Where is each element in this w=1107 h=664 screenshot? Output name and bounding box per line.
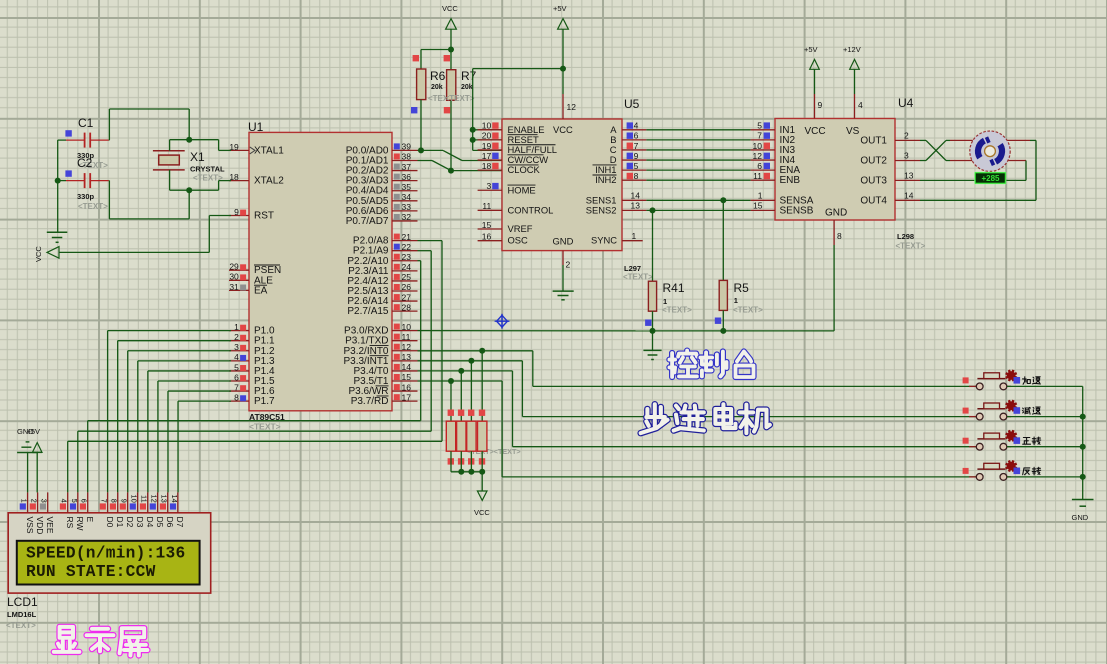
U1 pin 2 P1.1 [229,332,275,347]
svg-text:<TEXT>: <TEXT> [662,306,692,315]
junction SENS2/R41 node [650,207,656,213]
wire XTAL2 net [109,181,231,219]
svg-text:<TEXT>: <TEXT> [733,306,763,315]
stepper motor [970,131,1010,171]
resistor network element 2 [457,371,466,472]
svg-text:25: 25 [402,272,412,282]
svg-text:1: 1 [20,499,29,503]
U5 pin 11 CONTROL [478,201,554,215]
svg-text:SENS2: SENS2 [586,204,617,215]
svg-text:30: 30 [229,272,239,282]
svg-text:34: 34 [402,192,412,202]
svg-text:16: 16 [402,382,412,392]
LCD pin 10 D3 [130,492,145,527]
svg-text:P0.7/AD7: P0.7/AD7 [346,216,389,227]
U1 pin 12 P3.2/INT0 [343,342,417,357]
U4 pin 12 IN4 [751,151,796,166]
origin marker (blue compass) [495,314,510,329]
svg-text:CRYSTAL: CRYSTAL [190,165,225,174]
C1 label [78,116,94,130]
svg-text:RW: RW [75,517,85,531]
junction R7/P0.1 node [448,168,454,174]
LCD pin 7 D0 [100,492,115,527]
U4 pin 3 OUT2 [860,151,920,167]
R5 label [734,281,750,295]
U5 pin 6 B [610,131,646,145]
svg-text:OSC: OSC [508,235,529,246]
svg-text:24: 24 [402,262,412,272]
U4 pin 1 SENSA [751,191,814,207]
LCD pin 14 D7 [170,492,185,527]
svg-text:13: 13 [402,352,412,362]
svg-text:17: 17 [482,151,492,161]
U1 pin 1 P1.0 [229,322,275,337]
LCD pin 1 VSS [20,492,35,533]
svg-text:31: 31 [229,282,239,292]
svg-text:CONTROL: CONTROL [508,204,554,215]
svg-text:OUT4: OUT4 [860,195,887,206]
junction XTAL2 node [186,187,192,193]
U1 pin 4 P1.3 [229,352,275,367]
svg-text:SENSB: SENSB [780,205,814,216]
svg-text:C1: C1 [78,116,94,130]
svg-text:<TEXT>: <TEXT> [78,202,108,211]
svg-text:32: 32 [402,212,412,222]
svg-text:+5V: +5V [27,427,41,436]
LCD pin 8 D1 [110,492,125,527]
svg-text:6: 6 [757,161,762,171]
svg-text:4: 4 [234,352,239,362]
wire P1.2 to LCD D2 [128,351,231,493]
svg-text:LMD16L: LMD16L [7,610,37,619]
power VCC (resistor network, down) [474,491,490,517]
svg-text:2: 2 [566,260,571,270]
svg-text:D0: D0 [105,517,115,528]
U5 pin 14 SENS1 [586,191,647,206]
svg-text:4: 4 [634,121,639,131]
U5 pin 2 GND [553,236,574,292]
resistor R7 [444,55,456,171]
svg-text:2: 2 [234,332,239,342]
wire A to IN1 [646,129,750,131]
svg-text:36: 36 [402,172,412,182]
svg-text:OUT3: OUT3 [860,175,887,186]
svg-text:1: 1 [632,231,637,241]
U5 pin 10 ENABLE [478,121,545,135]
svg-text:VDD: VDD [35,517,45,535]
svg-text:P3.7/RD: P3.7/RD [351,396,389,407]
C1 value 330p [77,151,108,170]
wire INH1 to ENA [646,169,750,171]
junction P3.2/RN node [479,348,485,354]
U1 pin 39 P0.0/AD0 [346,142,418,157]
U5 pin 8 INH2 [593,171,647,185]
wire VCC to R6 R7 [421,50,451,70]
svg-text:330p: 330p [77,192,95,201]
svg-text:2: 2 [30,499,39,503]
U1 pin 36 P0.3/AD3 [346,172,418,187]
LCD1 value LMD16L [6,610,37,630]
U1 pin 34 P0.5/AD5 [346,192,418,207]
junction RESET node [470,137,476,143]
svg-text:<TEXT>: <TEXT> [896,242,926,251]
ground (crystal rail) [47,232,68,242]
svg-text:OUT2: OUT2 [860,156,887,167]
LCD1 label [7,595,38,609]
R41 value 1 [662,297,692,315]
svg-text:<TEXT>: <TEXT> [445,94,475,103]
svg-text:1: 1 [234,322,239,332]
X1 label [190,150,205,164]
U4 pin 4 VS [846,94,863,137]
svg-text:13: 13 [160,494,169,502]
U4 pin 14 OUT4 [860,190,920,206]
svg-text:SYNC: SYNC [591,235,617,246]
junction R5/GND node [720,328,726,334]
svg-text:26: 26 [402,282,412,292]
svg-text:X1: X1 [190,150,205,164]
svg-text:EA: EA [254,285,268,296]
svg-text:3: 3 [904,151,909,161]
U1 pin 38 P0.1/AD1 [346,152,418,167]
svg-text:12: 12 [402,342,412,352]
wire P2.0 to LCD RS [68,241,442,493]
svg-text:3: 3 [234,342,239,352]
wire button 2 to GND bus [1007,416,1083,418]
svg-text:6: 6 [634,131,639,141]
wire P1.0 to LCD D0 [108,331,231,493]
power +5V (U5) [553,4,568,69]
svg-text:E: E [85,517,95,523]
svg-text:13: 13 [631,201,641,211]
junction P3.4/RN node [458,368,464,374]
svg-text:4: 4 [60,499,69,503]
wire GND net (P3.0 row) [418,245,835,331]
svg-text:VCC: VCC [553,124,573,135]
svg-text:11: 11 [402,332,411,342]
U1 pin 9 RST [229,207,274,222]
svg-text:VCC: VCC [805,126,826,137]
U4 pin 11 ENB [751,171,801,186]
X1 value CRYSTAL [190,165,225,183]
power VCC (R6/R7) [442,4,458,50]
svg-text:D5: D5 [155,517,165,528]
svg-text:1: 1 [758,191,763,201]
svg-text:RS: RS [65,517,75,529]
wire XTAL1 net [109,109,231,150]
svg-text:11: 11 [482,201,491,211]
svg-text:VS: VS [846,126,860,137]
svg-text:CLOCK: CLOCK [508,164,541,175]
junction button 2 node [1080,414,1086,420]
wire D to IN4 [646,159,750,161]
U1 pin 35 P0.4/AD4 [346,182,418,197]
junction C2 left node [55,178,61,184]
U1 pin 25 P2.4/A12 [347,272,417,287]
svg-text:ENB: ENB [780,175,801,186]
U4 value L298 [896,232,926,251]
U1 pin 24 P2.3/A11 [348,262,417,277]
svg-text:+5V: +5V [553,4,567,13]
wire P2.2 to LCD E [88,261,421,493]
svg-text:14: 14 [904,190,914,200]
svg-text:12: 12 [567,102,577,112]
U5 pin 9 D [610,151,647,165]
svg-text:SPEED(n/min):136: SPEED(n/min):136 [26,545,185,563]
button label 正转 [1023,437,1041,445]
IC U5 L297 body [502,119,622,251]
wire R41 to ground [652,331,654,351]
svg-text:33: 33 [402,202,412,212]
wire B to IN2 [646,139,750,141]
ground (U5) [553,291,574,300]
svg-text:5: 5 [634,161,639,171]
R6 value 20k [428,84,458,103]
U1 pin 22 P2.1/A9 [353,242,418,257]
svg-text:+285: +285 [981,174,1000,183]
annotation 步进电机 [641,404,770,433]
wire +5V net [473,69,563,151]
U5 pin 17 CW/CCW [478,151,549,165]
U1 pin 6 P1.5 [229,372,275,387]
U1 pin 21 P2.0/A8 [353,232,418,247]
U5 pin 1 SYNC [591,231,643,246]
annotation 控制台 [669,351,753,377]
wire P3.4 to button 3 [418,371,977,447]
U4 pin 9 VCC [805,94,826,137]
svg-text:D1: D1 [115,517,125,528]
junction XTAL1 node [186,137,192,143]
U1 pin 37 P0.2/AD2 [346,162,418,177]
R41 label [663,281,685,295]
svg-text:38: 38 [402,152,412,162]
svg-text:2: 2 [904,130,909,140]
svg-text:15: 15 [753,201,763,211]
power +5V (U4) [804,45,819,94]
junction +5V node [560,66,566,72]
svg-text:3: 3 [486,181,491,191]
svg-text:C2: C2 [77,156,93,170]
svg-text:8: 8 [837,231,842,241]
U5 pin 3 HOME [478,181,536,195]
svg-text:28: 28 [402,302,412,312]
svg-text:27: 27 [402,292,412,302]
motor angle display +285 [974,172,1006,184]
U1 pin 13 P3.3/INT1 [343,352,417,367]
wire P1.1 to LCD D1 [118,341,231,493]
svg-text:VSS: VSS [25,517,35,534]
wire button 3 to GND bus [1007,446,1083,448]
wire OUT1 to motor (crossover) [920,140,973,160]
svg-text:8: 8 [110,499,119,503]
power +5V (LCD VDD) [27,427,43,492]
svg-text:GND: GND [825,208,847,219]
U4 pin 7 IN2 [751,131,796,146]
svg-text:39: 39 [402,142,412,152]
junction RN node a [458,469,464,475]
svg-text:VCC: VCC [34,246,43,262]
U5 label [624,97,640,111]
U1 pin 29 PSEN [229,262,281,277]
U1 pin 23 P2.2/A10 [347,252,417,267]
svg-text:14: 14 [170,494,179,502]
svg-text:23: 23 [402,252,412,262]
svg-text:5: 5 [234,362,239,372]
U1 pin 10 P3.0/RXD [344,322,417,337]
junction button 3 node [1080,444,1086,450]
svg-text:37: 37 [402,162,412,172]
resistor network element 3 [467,361,476,472]
svg-text:OUT1: OUT1 [860,135,887,146]
R5 value 1 [733,296,763,315]
wire P0.1 to CLOCK [418,161,503,171]
svg-text:15: 15 [482,220,492,230]
svg-text:1: 1 [734,296,738,305]
svg-text:D6: D6 [165,517,175,528]
wire SENS2 to SENSB [646,209,750,211]
svg-text:20: 20 [482,131,492,141]
U1 pin 17 P3.7/RD [351,392,418,407]
U4 pin 15 SENSB [751,201,814,217]
U4 pin 8 GND [825,208,847,246]
svg-text:8: 8 [634,171,639,181]
push button 2 (减速) [963,400,1021,420]
U1 label [248,120,264,134]
U4 pin 10 IN3 [751,141,796,156]
junction P3.3/RN node [468,358,474,364]
U1 pin 18 XTAL2 [229,172,284,187]
power VCC (RST) [34,246,59,262]
power +12V (U4) [843,45,861,94]
resistor network value <TEXT><TEXT> [467,447,521,456]
svg-text:D2: D2 [125,517,135,528]
U1 pin 27 P2.6/A14 [347,292,417,307]
svg-text:<TEXT>: <TEXT> [249,422,281,432]
svg-text:20k: 20k [431,84,443,91]
svg-text:<TEXT>: <TEXT> [6,621,36,630]
junction button 4 node [1080,474,1086,480]
junction VCC node [448,47,454,53]
LCD pin 9 D2 [120,492,135,527]
U5 pin 20 RESET [478,131,539,145]
svg-text:RUN STATE:CCW: RUN STATE:CCW [26,563,156,581]
push button 4 (反转) [963,460,1021,480]
C2 value 330p [77,192,108,211]
wire GND bus (buttons) [1082,386,1084,499]
U1 pin 28 P2.7/A15 [347,302,417,317]
svg-text:15: 15 [402,372,412,382]
svg-text:14: 14 [631,191,641,201]
svg-text:20k: 20k [461,84,473,91]
svg-text:9: 9 [120,499,129,503]
wire button 1 to GND bus [1007,385,1083,387]
svg-text:16: 16 [482,232,492,242]
svg-text:5: 5 [757,121,762,131]
junction P3.5/RN node [448,378,454,384]
U1 pin 31 EA [229,282,268,297]
junction ENABLE node [470,127,476,133]
junction R6/P0.0 node [418,147,424,153]
junction SENS1/R5 node [720,197,726,203]
U4 pin 6 ENA [751,161,801,176]
svg-text:+5V: +5V [804,45,818,54]
svg-text:GND: GND [553,236,574,247]
wire C to IN3 [646,149,750,151]
capacitor C2 [58,170,110,188]
svg-text:VCC: VCC [474,508,490,517]
wire SENS1 to SENSA [646,199,750,201]
R7 label [461,69,477,83]
wire P2.1 to LCD RW [78,251,431,493]
IC U4 L298 body [775,119,895,221]
annotation 显示屏 [54,627,148,656]
svg-text:D3: D3 [135,517,145,528]
svg-text:9: 9 [818,100,823,110]
U1 pin 7 P1.6 [229,382,275,397]
U1 pin 15 P3.5/T1 [353,372,417,387]
wire P1.6 to LCD D6 [168,391,231,492]
svg-text:6: 6 [234,372,239,382]
svg-text:VEE: VEE [45,517,55,534]
LCD LCD1 body [8,513,211,593]
svg-text:R6: R6 [430,69,446,83]
U5 pin 4 A [610,121,646,135]
IC U1 AT89C51 body [249,132,392,410]
resistor R5 [715,200,728,331]
wire P1.5 to LCD D5 [158,381,231,492]
svg-text:GND: GND [1072,513,1089,522]
U1 value AT89C51 [249,412,285,432]
junction RN node c [479,469,485,475]
LCD pin 4 RS [60,492,75,528]
U1 pin 33 P0.6/AD6 [346,202,418,217]
wire P1.4 to LCD D4 [148,371,231,492]
svg-text:VCC: VCC [442,4,458,13]
svg-text:9: 9 [234,207,239,217]
svg-text:4: 4 [858,100,863,110]
U1 pin 26 P2.5/A13 [347,282,417,297]
U1 pin 5 P1.4 [229,362,275,377]
svg-text:XTAL2: XTAL2 [254,176,284,187]
wire motor to OUT4 [920,140,1036,200]
svg-text:7: 7 [100,499,109,503]
wire P1.7 to LCD D7 [178,401,231,492]
svg-text:U4: U4 [898,96,914,110]
LCD pin 11 D4 [140,492,155,527]
R7 value 20k [445,84,475,103]
ground (LCD VSS) [17,427,38,492]
wire ground rail left [57,140,59,232]
U5 pin 5 INH1 [593,161,647,175]
resistor R6 [411,55,426,150]
capacitor C1 [58,130,110,147]
resistor network element 4 [478,351,487,472]
resistor R41 [645,210,657,331]
svg-text:29: 29 [229,262,239,272]
crystal X1 [153,140,185,191]
U5 pin 15 VREF [478,220,533,234]
U5 pin 18 CLOCK [478,161,541,175]
wire button 4 to GND bus [1007,476,1083,478]
svg-text:INH2: INH2 [595,174,616,185]
LCD pin 12 D5 [150,492,165,527]
U4 pin 5 IN1 [751,121,796,136]
U4 pin 13 OUT3 [860,170,920,186]
wire P3.5 to button 4 [418,381,977,477]
svg-text:12: 12 [150,494,159,502]
svg-text:21: 21 [402,232,412,242]
junction R41/GND node [650,328,656,334]
